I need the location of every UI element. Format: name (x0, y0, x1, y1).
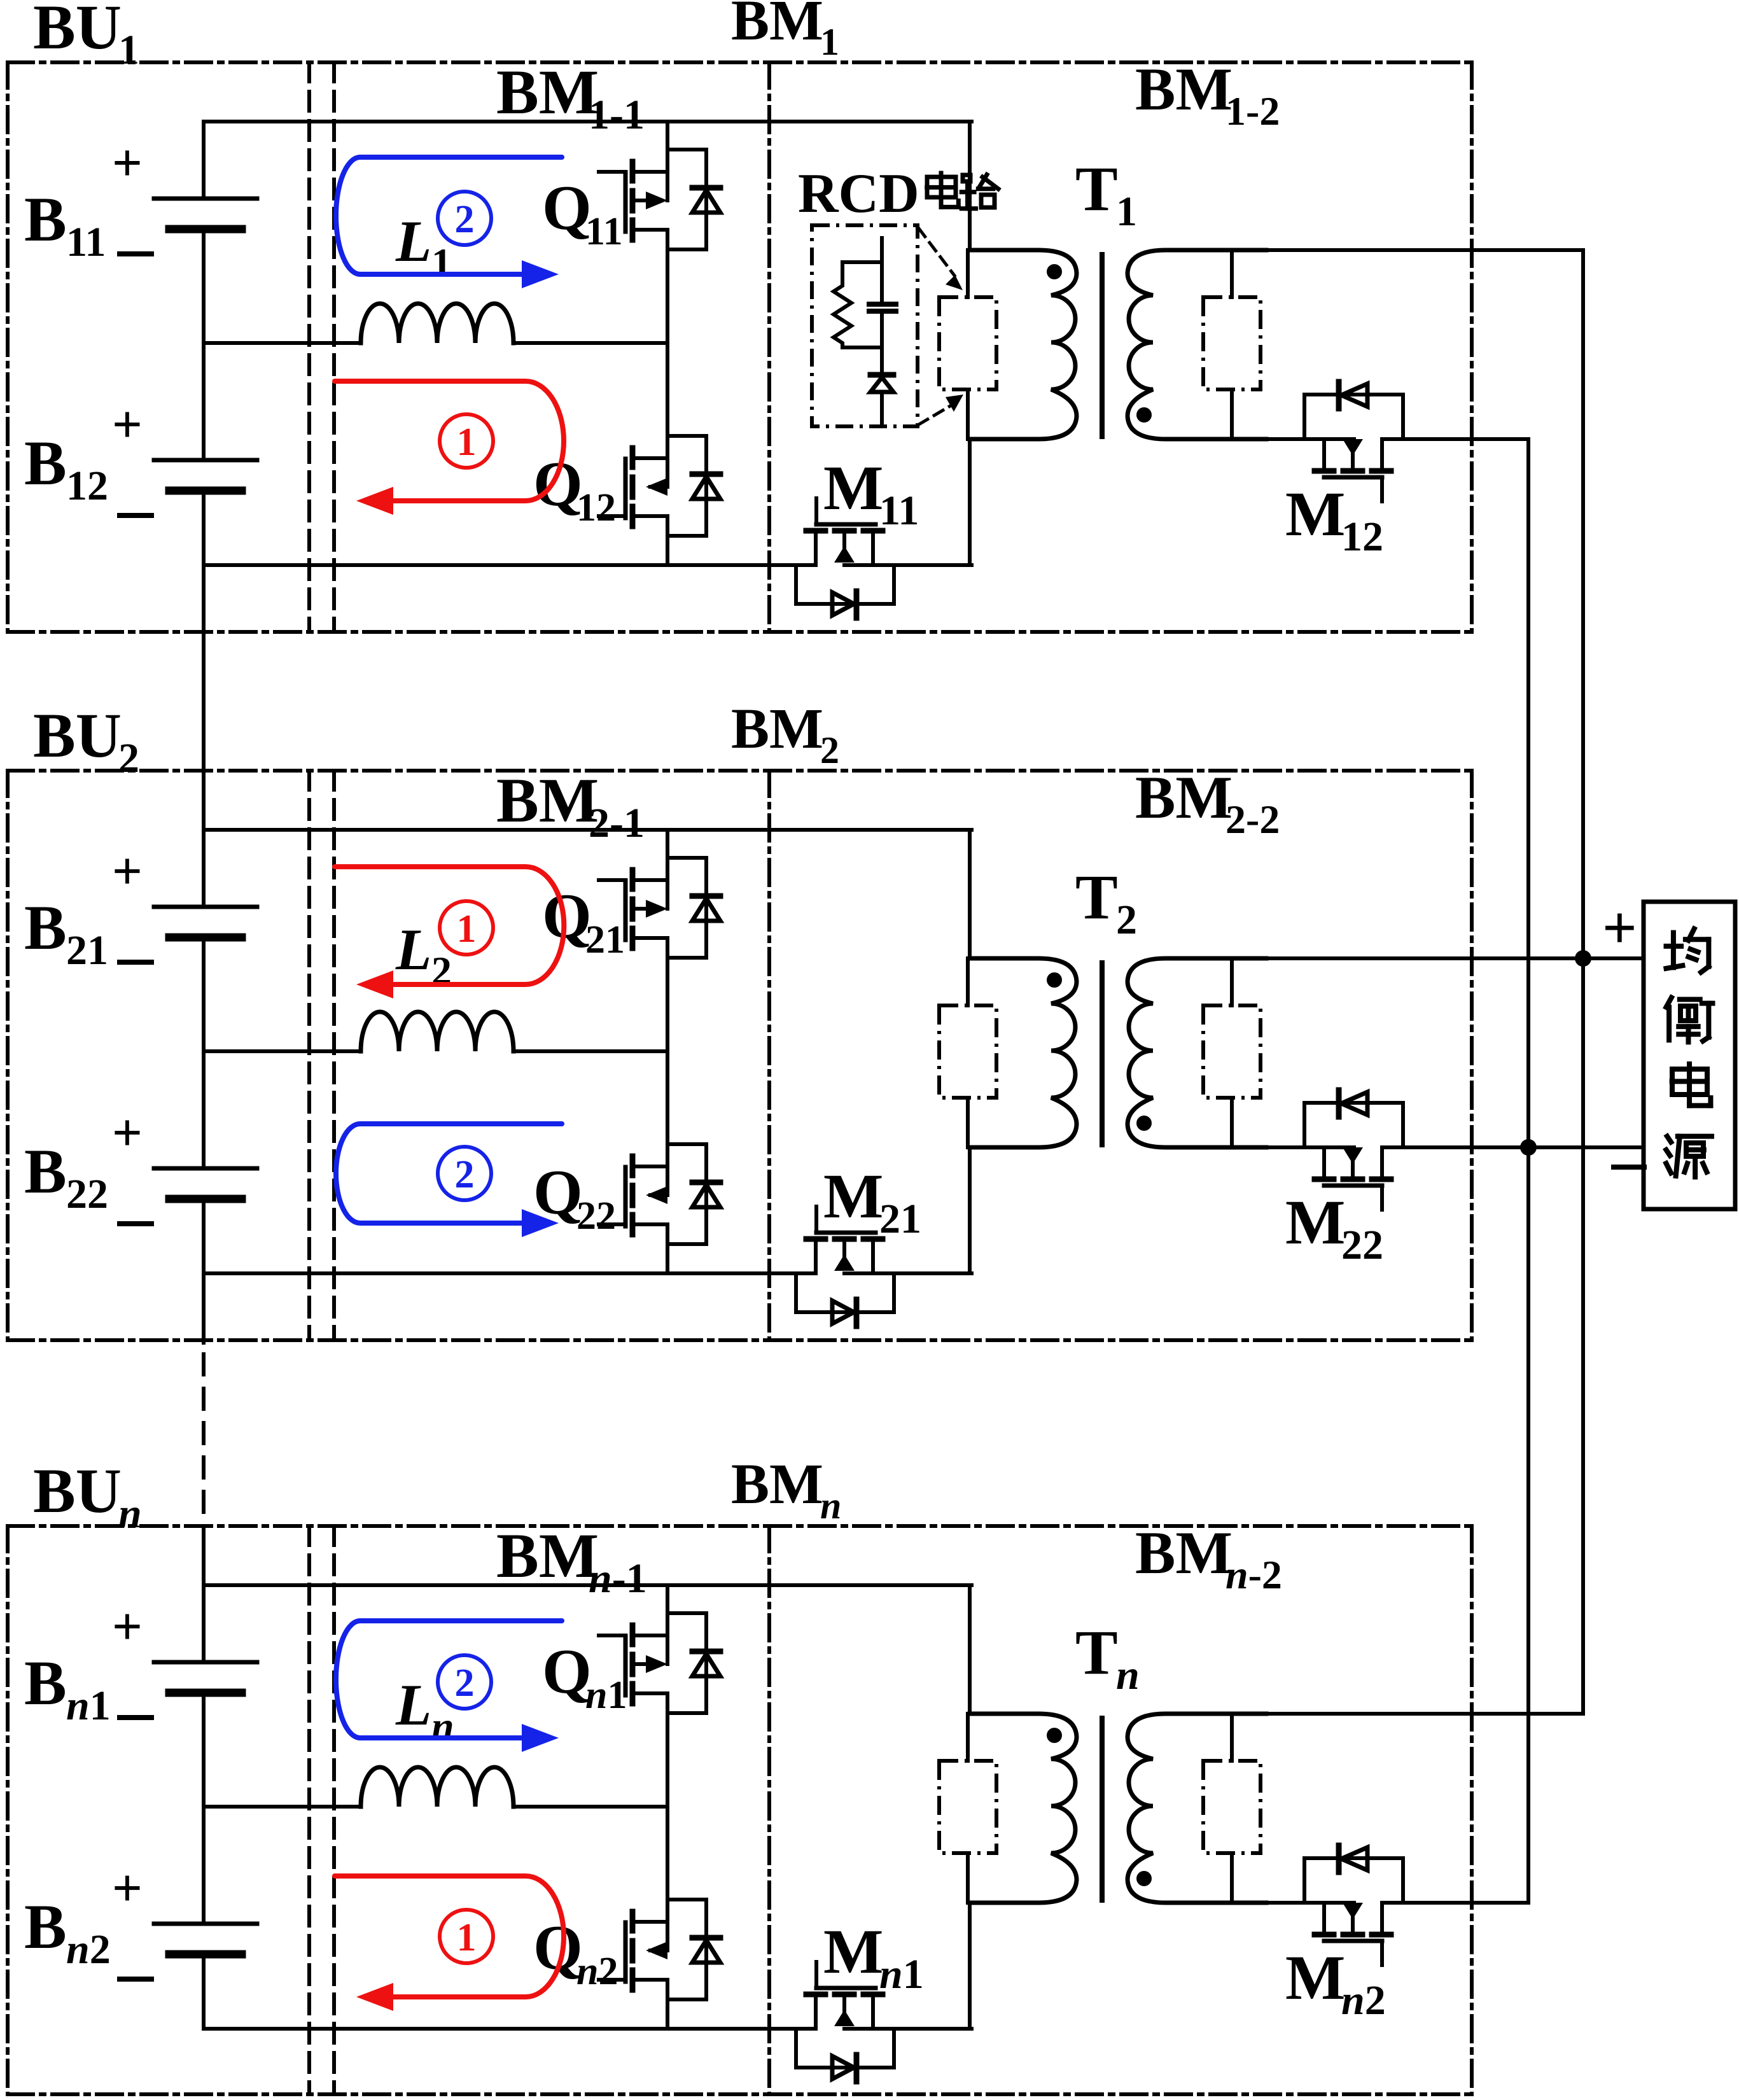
svg-text:BM: BM (731, 697, 823, 760)
transistor M11 (806, 528, 825, 534)
svg-text:n1: n1 (66, 1683, 111, 1729)
svg-text:BU: BU (33, 700, 122, 771)
svg-text:BM: BM (731, 1453, 823, 1516)
svg-text:n: n (820, 1485, 841, 1527)
transistor Q21 (630, 870, 636, 889)
svg-text:B: B (24, 428, 67, 498)
wire secondary bottom (1266, 437, 1354, 441)
svg-text:22: 22 (576, 1194, 616, 1238)
loop marker 2 (438, 1147, 491, 1200)
wire top rail (204, 1583, 972, 1587)
wire secondary top (1266, 1712, 1583, 1716)
svg-text:M: M (823, 1916, 883, 1987)
svg-text:M: M (823, 1161, 883, 1231)
svg-text:+: + (112, 1597, 143, 1656)
wire secondary bottom (1266, 1145, 1354, 1149)
wire primary drop (968, 1585, 972, 1714)
RCD wire center (880, 238, 884, 304)
svg-text:1-2: 1-2 (1226, 88, 1280, 134)
battery B11 (154, 197, 257, 201)
wire chain dashed continuation (202, 1354, 206, 1526)
svg-text:Q: Q (542, 172, 592, 243)
bus negative (x=2402) (1526, 439, 1530, 1903)
label RCD (hanzi 电) (927, 177, 956, 197)
svg-text:1: 1 (820, 21, 839, 63)
RCD pointer dashed arrows (919, 228, 954, 276)
svg-text:T: T (1075, 862, 1118, 932)
svg-text:1: 1 (431, 240, 452, 285)
svg-text:2: 2 (455, 1662, 475, 1705)
svg-text:Q: Q (533, 449, 583, 519)
transformer T1 (970, 250, 1077, 439)
divider BM2-1 / BM2-2 (767, 771, 771, 1340)
svg-text:BM: BM (496, 1520, 599, 1591)
svg-text:+: + (112, 134, 143, 193)
svg-text:B: B (24, 1891, 67, 1962)
battery B22 (154, 1166, 257, 1171)
svg-text:n1: n1 (879, 1951, 924, 1998)
bus positive (x=2488) (1581, 250, 1585, 1714)
svg-text:11: 11 (585, 210, 623, 253)
box BU2 outline (8, 769, 1472, 773)
svg-text:Q: Q (542, 1636, 592, 1707)
snubber box (primary side) (966, 958, 970, 1005)
svg-text:21: 21 (585, 918, 625, 962)
RCD capacitor (869, 302, 896, 307)
svg-text:11: 11 (879, 487, 919, 534)
label supply text 源 (1667, 1137, 1671, 1142)
box BM1 outline (332, 62, 336, 632)
svg-text:1: 1 (457, 1916, 477, 1959)
wire mid rail (204, 1805, 361, 1809)
current loop 1 (red) (335, 1876, 564, 1997)
transistor Mn2 (1315, 1932, 1334, 1938)
svg-text:BM: BM (1135, 55, 1233, 123)
current loop 2 (blue) (336, 157, 562, 274)
svg-text:+: + (112, 842, 143, 901)
wire primary drop (968, 122, 972, 250)
svg-text:B: B (24, 1648, 67, 1718)
svg-text:+: + (1602, 893, 1637, 962)
battery B21 (154, 905, 257, 909)
svg-text:n-1: n-1 (589, 1555, 647, 1602)
svg-text:1-1: 1-1 (589, 92, 645, 138)
transistor Mn1 (806, 1992, 825, 1998)
wire secondary bottom (1266, 1901, 1354, 1905)
svg-text:2: 2 (118, 735, 139, 781)
svg-text:Q: Q (542, 881, 592, 951)
svg-text:L: L (395, 1672, 431, 1737)
battery Bn2 (154, 1922, 257, 1926)
svg-text:2-2: 2-2 (1226, 797, 1280, 842)
svg-text:1: 1 (457, 421, 477, 464)
svg-text:21: 21 (879, 1196, 921, 1242)
inductor L2 (361, 1012, 513, 1051)
svg-text:BM: BM (496, 57, 599, 127)
transistor M22 (1315, 1177, 1334, 1182)
snubber box (secondary side) (1230, 958, 1234, 1005)
svg-text:+: + (112, 1859, 143, 1918)
wire bottom rail (204, 563, 816, 567)
svg-text:BU: BU (33, 1455, 122, 1526)
current loop 2 (blue) (336, 1621, 562, 1738)
svg-text:T: T (1075, 1617, 1118, 1688)
transistor M21 (806, 1236, 825, 1242)
svg-text:n: n (431, 1704, 454, 1749)
node junction bus1/row2- (1520, 1139, 1537, 1156)
svg-text:2: 2 (1116, 897, 1137, 943)
svg-text:+: + (112, 1103, 143, 1163)
svg-text:BU: BU (33, 0, 122, 62)
battery Bn1 (154, 1660, 257, 1665)
svg-text:M: M (1285, 479, 1345, 549)
loop marker 2 (438, 192, 491, 245)
svg-text:n2: n2 (66, 1926, 111, 1973)
transistor Qn1 (630, 1625, 636, 1644)
wire top rail (204, 120, 972, 123)
label RCD (hanzi 路) (963, 175, 970, 181)
snubber box (primary side) (966, 1714, 970, 1761)
svg-text:12: 12 (66, 463, 108, 509)
transistor M12 (1315, 468, 1334, 474)
snubber box (secondary side) (1230, 1714, 1234, 1761)
svg-text:2-1: 2-1 (589, 800, 645, 846)
svg-text:M: M (1285, 1942, 1345, 2013)
label supply text 均 (1671, 933, 1676, 968)
svg-text:B: B (24, 892, 67, 963)
svg-text:n-2: n-2 (1226, 1552, 1282, 1597)
svg-text:BM: BM (1135, 1519, 1233, 1586)
svg-text:T: T (1075, 153, 1118, 224)
transformer Tn (970, 1714, 1077, 1903)
svg-text:n: n (118, 1490, 142, 1537)
RCD diode (880, 311, 884, 376)
svg-text:22: 22 (1341, 1222, 1383, 1268)
svg-text:BM: BM (496, 765, 599, 836)
wire primary drop (968, 830, 972, 958)
svg-text:L: L (395, 917, 431, 982)
wire top rail (204, 828, 972, 832)
svg-text:1: 1 (118, 27, 139, 73)
snubber box (secondary side) (1230, 250, 1234, 297)
loop marker 1 (440, 414, 493, 468)
box BU1 outline (8, 60, 1472, 64)
wire bottom rail (204, 2027, 816, 2031)
transformer T2 (970, 958, 1077, 1147)
inductor L1 (361, 304, 513, 343)
wire secondary top (1266, 248, 1583, 252)
label supply text 衡 (1666, 998, 1672, 1007)
current loop 2 (blue) (336, 1124, 562, 1223)
battery B12 (154, 458, 257, 463)
wire secondary top (1266, 956, 1644, 960)
svg-text:L: L (395, 209, 431, 274)
loop marker 2 (438, 1655, 491, 1709)
transistor Qn2 (630, 1912, 636, 1931)
svg-text:n: n (1116, 1652, 1140, 1698)
box BUn outline (8, 1524, 1472, 1528)
svg-text:M: M (1285, 1187, 1345, 1257)
svg-text:n2: n2 (576, 1950, 618, 1993)
svg-text:n2: n2 (1341, 1977, 1386, 2024)
wire bottom rail (204, 1271, 816, 1275)
transistor Q12 (630, 448, 636, 467)
svg-text:2: 2 (820, 729, 839, 771)
svg-text:22: 22 (66, 1171, 108, 1217)
balancing supply box (1644, 902, 1735, 1209)
box BM2 outline (332, 771, 336, 1340)
svg-text:M: M (823, 452, 883, 523)
divider BMn-1 / BMn-2 (767, 1526, 771, 2094)
box BMn outline (332, 1526, 336, 2094)
current loop 1 (red) (335, 381, 564, 501)
svg-text:n1: n1 (585, 1674, 627, 1717)
svg-text:2: 2 (455, 198, 475, 241)
inductor Ln (361, 1767, 513, 1807)
svg-text:2: 2 (455, 1153, 475, 1196)
svg-text:BM: BM (1135, 764, 1233, 831)
svg-text:RCD: RCD (798, 163, 919, 225)
svg-text:11: 11 (66, 219, 106, 265)
snubber box (primary side) (966, 250, 970, 297)
RCD resistor (834, 262, 882, 347)
loop marker 1 (440, 1910, 493, 1963)
svg-text:12: 12 (576, 486, 616, 529)
label supply - terminal (1614, 1165, 1644, 1170)
node junction bus2/row2+ (1575, 950, 1591, 967)
transistor Q22 (630, 1156, 636, 1175)
divider BM1-1 / BM1-2 (767, 62, 771, 632)
svg-text:BM: BM (731, 0, 823, 52)
svg-text:12: 12 (1341, 514, 1383, 560)
svg-text:B: B (24, 184, 67, 255)
transistor Q11 (630, 162, 636, 181)
current loop 1 (red) (335, 867, 564, 984)
loop marker 1 (440, 901, 493, 955)
svg-text:B: B (24, 1136, 67, 1207)
wire battery chain (x=320) (202, 122, 206, 199)
svg-text:+: + (112, 395, 143, 454)
svg-text:21: 21 (66, 927, 108, 974)
svg-text:1: 1 (457, 907, 477, 951)
RCD circuit box (812, 225, 918, 426)
wire mid rail (204, 1049, 361, 1053)
wire mid rail (204, 341, 361, 345)
label supply text 电 (1672, 1069, 1707, 1095)
svg-text:1: 1 (1116, 188, 1137, 235)
